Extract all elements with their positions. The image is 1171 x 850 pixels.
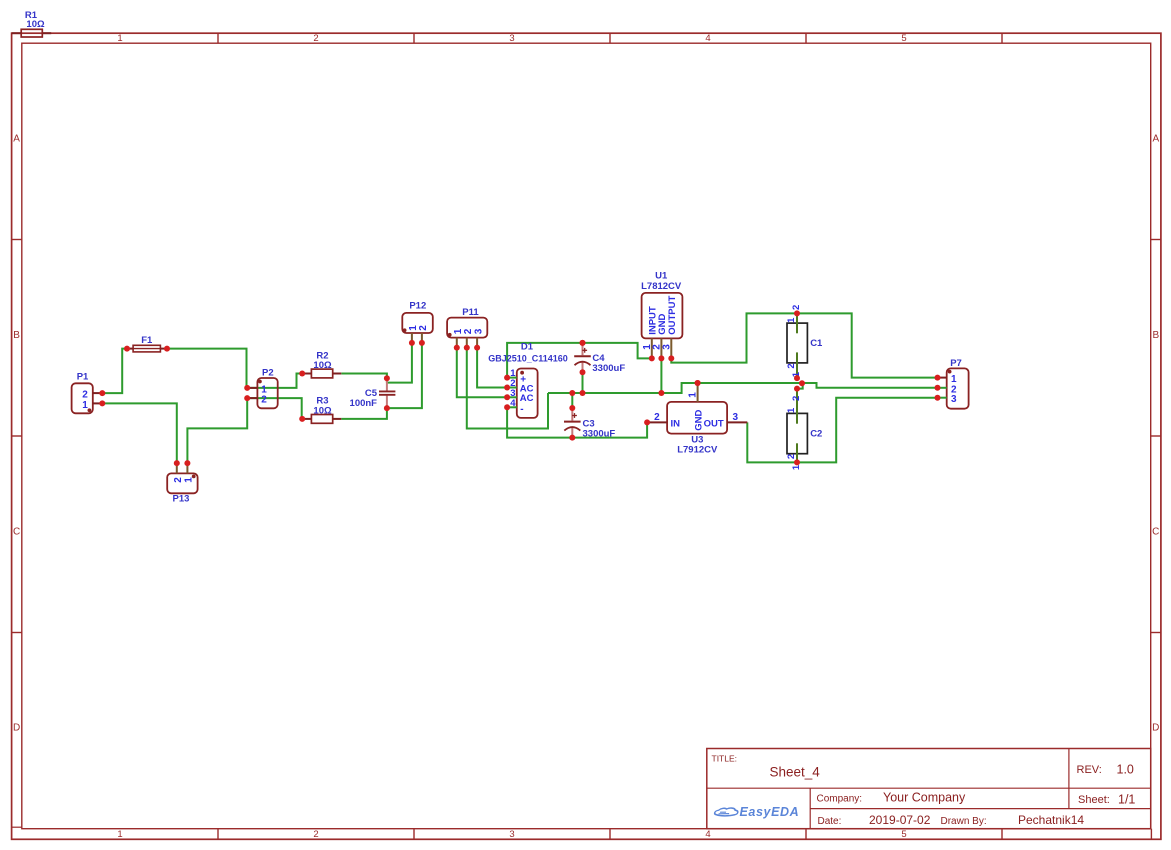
- svg-text:L7812CV: L7812CV: [641, 281, 682, 292]
- svg-text:2: 2: [313, 829, 318, 840]
- capacitor C1: [786, 305, 823, 378]
- node junctions: [569, 310, 805, 465]
- svg-text:3: 3: [509, 33, 514, 44]
- svg-text:P1: P1: [77, 372, 89, 383]
- connector P7: [935, 358, 969, 408]
- wire C2 top stub: [797, 383, 803, 389]
- svg-text:A: A: [13, 133, 20, 144]
- svg-text:4: 4: [510, 398, 516, 409]
- svg-text:P13: P13: [173, 494, 190, 505]
- capacitor C2: [786, 389, 822, 471]
- wire D1.4 to C3 to U3.IN: [507, 407, 647, 437]
- svg-text:3: 3: [509, 829, 514, 840]
- svg-text:4: 4: [705, 829, 710, 840]
- wire P1.2 to F1: [102, 349, 127, 394]
- svg-text:1: 1: [786, 317, 797, 323]
- title block: [707, 749, 1151, 829]
- wire U1.GND down: [660, 358, 662, 393]
- svg-text:2: 2: [261, 395, 267, 406]
- svg-text:IN: IN: [671, 418, 681, 429]
- bridge rectifier D1: [488, 341, 568, 418]
- svg-text:2: 2: [418, 325, 429, 331]
- svg-text:1: 1: [117, 33, 122, 44]
- svg-text:2: 2: [654, 412, 660, 423]
- wire P11.3 to D1.2: [477, 348, 507, 388]
- wire P1.1 to P13.2: [102, 403, 177, 463]
- wire U1.OUT to C1 to P7.1: [671, 313, 937, 377]
- svg-text:1/1: 1/1: [1118, 793, 1135, 807]
- svg-text:3: 3: [662, 344, 673, 350]
- svg-text:1.0: 1.0: [1117, 763, 1134, 777]
- svg-text:EasyEDA: EasyEDA: [740, 805, 800, 819]
- svg-text:B: B: [13, 330, 20, 341]
- svg-text:Date:: Date:: [818, 816, 842, 827]
- svg-text:Your Company: Your Company: [883, 790, 966, 804]
- svg-text:C2: C2: [810, 428, 822, 439]
- resistor R3: [299, 396, 341, 424]
- svg-text:OUTPUT: OUTPUT: [667, 296, 678, 335]
- svg-text:B: B: [1152, 330, 1159, 341]
- resistor R2: [299, 350, 341, 378]
- wire P11.1 to D1.3: [457, 348, 507, 398]
- svg-text:C: C: [1152, 526, 1159, 537]
- capacitor C4: [574, 340, 625, 375]
- fuse F1: [124, 335, 170, 352]
- wire GND row to C3 top: [571, 393, 573, 408]
- voltage regulator U3 L7912CV: [644, 380, 747, 456]
- svg-text:100nF: 100nF: [350, 398, 378, 409]
- voltage regulator U1 L7812CV: [641, 271, 682, 362]
- wire P11.2 to GND node: [467, 348, 548, 429]
- svg-text:10Ω: 10Ω: [313, 406, 332, 417]
- svg-text:P2: P2: [262, 367, 274, 378]
- svg-text:F1: F1: [141, 335, 153, 346]
- svg-text:2: 2: [313, 33, 318, 44]
- svg-text:10Ω: 10Ω: [26, 19, 45, 30]
- wire U3.OUT to C2 to P7.3: [747, 398, 937, 463]
- svg-text:D: D: [13, 723, 20, 734]
- svg-text:Pechatnik14: Pechatnik14: [1018, 813, 1084, 827]
- svg-text:L7912CV: L7912CV: [677, 445, 718, 456]
- svg-text:3300uF: 3300uF: [583, 428, 616, 439]
- svg-text:10Ω: 10Ω: [313, 360, 332, 371]
- svg-text:3: 3: [473, 328, 484, 334]
- resistor R1: [12, 10, 52, 37]
- capacitor C3: [564, 405, 615, 441]
- wire P2.1 to R2: [247, 374, 302, 388]
- svg-text:GND: GND: [693, 410, 704, 431]
- svg-text:1: 1: [117, 829, 122, 840]
- wire F1 to P2.1: [167, 349, 247, 388]
- connector P13: [167, 460, 197, 504]
- svg-text:Sheet_4: Sheet_4: [770, 765, 821, 780]
- connector P1: [72, 372, 106, 414]
- svg-text:C: C: [13, 526, 20, 537]
- svg-text:GBJ2510_C114160: GBJ2510_C114160: [488, 354, 568, 364]
- svg-text:REV:: REV:: [1077, 764, 1102, 776]
- wire C4 bottom to GND row: [582, 372, 584, 393]
- svg-text:D1: D1: [521, 341, 534, 352]
- svg-text:Sheet:: Sheet:: [1078, 794, 1110, 806]
- svg-text:1: 1: [688, 392, 699, 398]
- connector P12: [402, 301, 433, 346]
- svg-text:3300uF: 3300uF: [592, 363, 625, 374]
- svg-text:5: 5: [901, 33, 906, 44]
- svg-text:C1: C1: [810, 338, 823, 349]
- svg-text:A: A: [1152, 133, 1159, 144]
- connector P11: [447, 307, 487, 350]
- svg-text:OUT: OUT: [704, 418, 724, 429]
- svg-text:D: D: [1152, 723, 1159, 734]
- wire P2.2 to R3: [247, 398, 302, 419]
- svg-text:-: -: [520, 404, 523, 415]
- svg-text:P11: P11: [462, 307, 479, 318]
- wire GND row: [548, 383, 938, 393]
- svg-text:1: 1: [786, 407, 797, 413]
- svg-text:AC: AC: [520, 393, 534, 404]
- wire P2.2 to P13.1: [187, 398, 247, 463]
- svg-text:2: 2: [786, 454, 797, 459]
- svg-text:2: 2: [791, 305, 802, 310]
- svg-text:3: 3: [951, 394, 957, 405]
- svg-text:Drawn By:: Drawn By:: [941, 816, 987, 827]
- svg-text:P12: P12: [409, 301, 426, 312]
- svg-text:2019-07-02: 2019-07-02: [869, 813, 931, 827]
- wire R2 to C5 and P12.1: [341, 343, 412, 383]
- svg-text:TITLE:: TITLE:: [712, 754, 738, 764]
- svg-text:2: 2: [173, 477, 184, 483]
- wire D1.1 to C4 to U1.IN: [507, 343, 652, 378]
- svg-text:3: 3: [733, 412, 739, 423]
- capacitor C5: [350, 375, 396, 411]
- svg-text:2: 2: [786, 363, 797, 368]
- svg-text:1: 1: [82, 400, 88, 411]
- svg-text:2: 2: [791, 396, 802, 401]
- svg-text:4: 4: [705, 33, 710, 44]
- connector P2: [244, 367, 277, 408]
- svg-text:P7: P7: [950, 358, 962, 369]
- wire R3 to C5 and P12.2: [341, 343, 422, 419]
- svg-text:5: 5: [901, 829, 906, 840]
- svg-text:Company:: Company:: [817, 793, 863, 804]
